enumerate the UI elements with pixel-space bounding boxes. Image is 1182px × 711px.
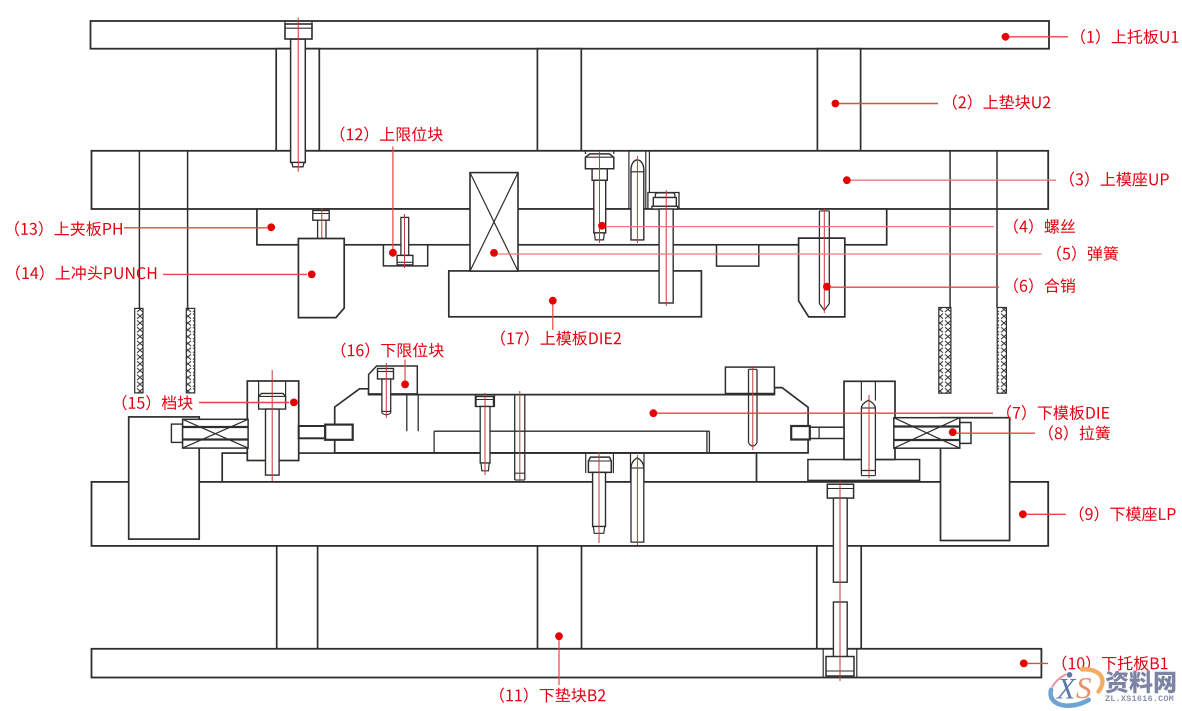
long bolt shaft upper (833, 498, 847, 582)
pad bolt pocket (585, 453, 587, 473)
lower spacer B2 right column (817, 546, 861, 649)
lower pad plate (die shoe pad) (222, 453, 756, 482)
long bolt centerline (839, 481, 841, 681)
lower die plate DIE (7) body (335, 388, 808, 453)
screw (4) bore stubs (584, 151, 586, 154)
limit block inverted screw head (397, 255, 413, 265)
dome pin centerline (636, 156, 638, 243)
svg-text:S: S (1076, 670, 1092, 705)
long bolt shaft lower (833, 602, 847, 657)
left rod to block15 (299, 426, 326, 438)
upper spacer U2 right column (817, 49, 860, 151)
lower spacer B2 left column (11) (277, 546, 318, 649)
top bolt bore stubs (284, 21, 286, 24)
dowel pin (6) (818, 211, 820, 304)
label (15) leader (199, 402, 289, 404)
block15 pocket (258, 381, 260, 396)
upper die plate DIE2 (17) (449, 271, 702, 317)
upper spacer U2 left column (2) (276, 49, 319, 151)
screw above DIE2 - shaft (659, 209, 673, 303)
label (17) leader (549, 297, 557, 305)
punch retaining screw shaft (318, 220, 326, 257)
screw (4) neck (592, 169, 607, 181)
pad bolt centerline (598, 452, 600, 543)
label (8) leader (949, 428, 957, 436)
lower die screw shaft (480, 407, 490, 464)
label (7) text (1007, 405, 1109, 420)
label (10) text (1063, 656, 1168, 671)
label (3) leader (843, 176, 851, 184)
lower die dowel centerline (519, 391, 521, 483)
upper top plate U1 (1) (91, 21, 1050, 49)
right punch block (799, 238, 845, 317)
label (14) leader (163, 273, 307, 275)
watermark site name (1106, 670, 1176, 693)
block15 bolt head (259, 393, 286, 409)
label (2) text (953, 95, 1050, 110)
top bolt shaft (291, 39, 306, 163)
top bolt head (285, 24, 312, 39)
right limit block pin centerline (752, 366, 754, 450)
dowel pin centerline (823, 209, 825, 314)
lower die base LP (9) (92, 482, 1049, 546)
left pull rod cap (171, 424, 182, 442)
label (12) leader (392, 147, 394, 250)
right stop block pin (861, 400, 875, 470)
upper punch PUNCH (14) (298, 239, 344, 318)
label (4) text (1014, 219, 1075, 234)
label (8) text (1049, 425, 1110, 440)
screw head pocket in UP (648, 193, 679, 210)
long bolt head (827, 484, 853, 498)
label (11) leader (555, 632, 563, 640)
svg-text:X: X (1056, 673, 1077, 706)
label (6) text (1014, 278, 1075, 293)
label (17) text (501, 331, 621, 346)
lower spacer B2 middle column (538, 546, 582, 649)
label (12) text (341, 127, 443, 142)
pad bolt head (588, 457, 611, 472)
right stop block pin centerline (868, 395, 870, 478)
label (7) leader (650, 409, 658, 417)
screw (4) centerline (599, 151, 601, 243)
label (2) leader (832, 100, 840, 108)
punch retaining screw head (313, 211, 329, 221)
upper die base UP (3) (92, 151, 1049, 209)
upper spacer U2 middle column (537, 49, 581, 151)
label (16) leader (404, 360, 406, 381)
label (5) text (1057, 246, 1118, 261)
lower die pocket walls below block16 (406, 395, 408, 432)
dome pin in UP (631, 160, 644, 240)
label (16) text (342, 343, 444, 358)
spring (5) (470, 173, 518, 272)
block15 bolt centerline (271, 370, 273, 481)
right stop block (844, 381, 895, 459)
block16 screw shaft (382, 379, 391, 412)
block16 screw centerline (385, 363, 387, 418)
label (15) text (123, 395, 193, 410)
right pad under stop block (808, 460, 920, 481)
limit block inverted screw shaft (401, 217, 409, 255)
right guide post (949, 151, 951, 308)
pull spring right (8) (894, 418, 960, 449)
right guide block (941, 418, 1010, 541)
lower die screw head (476, 397, 494, 407)
long bolt bottom head (826, 657, 854, 677)
right limit block (725, 367, 774, 393)
right pull rod (810, 427, 844, 438)
label (5) leader (490, 249, 498, 257)
lower die layer line (434, 430, 709, 432)
limit block screw centerline (404, 214, 406, 268)
block16 screw head (378, 369, 394, 380)
screw (4) shaft (594, 180, 606, 233)
label (13) leader (124, 227, 267, 229)
pin hole lines in UP (628, 151, 630, 209)
right stop block pocket (860, 381, 862, 400)
label (3) text (1070, 172, 1169, 187)
screw (4) head (585, 154, 613, 169)
label (9) leader (1019, 510, 1027, 518)
right ball cage (939, 308, 951, 394)
pad dome pin (631, 458, 644, 542)
step block under PH (717, 245, 759, 266)
punch screw centerline (321, 208, 323, 262)
right rod end cap (960, 423, 971, 444)
upper limit block (12) (383, 245, 427, 266)
label (11) text (500, 688, 605, 703)
left guide post (138, 151, 140, 309)
lower limit block (16) (369, 366, 418, 394)
pull spring left (183, 419, 249, 448)
label (14) text (16, 265, 156, 280)
screw above DIE2 - cap (655, 193, 675, 198)
label (10) leader (1020, 660, 1028, 668)
screw above DIE2 centerline (665, 190, 667, 306)
pad bolt shaft (593, 472, 606, 526)
pad dome pin hole (630, 453, 632, 546)
label (1) leader (1002, 33, 1010, 41)
left ball cage (135, 308, 143, 393)
long bolt bore in B1 (822, 649, 824, 678)
label (13) text (15, 221, 122, 236)
label (9) text (1080, 506, 1176, 521)
watermark swoosh ring (1045, 663, 1107, 711)
watermark dot on X (1067, 672, 1073, 678)
label (1) text (1081, 29, 1178, 44)
left guide block (129, 417, 200, 539)
lower die dowel pin (514, 395, 516, 480)
bottom plate B1 (10) (92, 649, 1042, 678)
right limit block pin (748, 369, 750, 442)
lower die screw centerline (484, 393, 486, 475)
pad dome pin centerline (636, 455, 638, 545)
lower die screw pocket (474, 395, 476, 407)
screw above DIE2 - head (653, 198, 676, 207)
label (6) leader (823, 283, 831, 291)
label (4) leader (598, 222, 606, 230)
top bolt centerline (297, 18, 299, 172)
stop block (15) (247, 381, 298, 461)
block15 bolt shaft (266, 409, 280, 475)
svg-text:ZL.XS1616.COM: ZL.XS1616.COM (1105, 694, 1174, 704)
upper clamp plate PH (13) (257, 209, 887, 245)
